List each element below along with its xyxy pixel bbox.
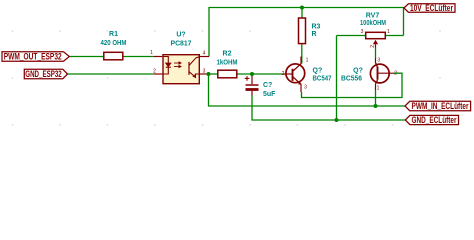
svg-text:GND_ESP32: GND_ESP32 <box>25 69 62 79</box>
phototransistor inside opto <box>189 57 200 78</box>
svg-text:1: 1 <box>306 58 309 64</box>
wire cap down to GND row <box>252 95 405 120</box>
pin 1 <box>154 56 162 58</box>
svg-text:5uF: 5uF <box>263 91 276 98</box>
wire R3 top <box>301 8 303 19</box>
svg-text:2: 2 <box>394 71 397 77</box>
opto-coupler U1 PC817 <box>150 31 209 83</box>
capacitor C1 5uF <box>245 75 276 98</box>
wiper arrow <box>373 40 378 44</box>
emitter with arrow <box>293 77 302 93</box>
collector <box>293 57 302 72</box>
svg-text:GND_ECLüfter: GND_ECLüfter <box>412 115 457 125</box>
resistor R3 <box>299 18 321 44</box>
pin 3 <box>200 73 209 75</box>
svg-text:1: 1 <box>377 86 380 92</box>
label GND_ECLüfter <box>405 115 458 125</box>
base pin <box>284 73 293 75</box>
LED inside opto <box>162 57 171 75</box>
junction R3 top node <box>300 6 304 10</box>
wire PWM_OUT row <box>69 56 154 58</box>
svg-text:R1: R1 <box>109 31 118 38</box>
svg-text:PC817: PC817 <box>171 40 192 47</box>
wire R3 to Q1 collector <box>301 44 303 63</box>
svg-text:Q?: Q? <box>313 68 323 75</box>
svg-text:2: 2 <box>282 71 285 77</box>
wire RV7 left leg to GND <box>336 36 338 121</box>
junction pin3 node <box>207 72 211 76</box>
svg-text:3: 3 <box>377 58 380 64</box>
transistor Q2 BC556 <box>341 58 397 92</box>
svg-text:BC547: BC547 <box>313 75 332 82</box>
pin 2 <box>154 73 162 75</box>
wire Q1 emitter loop to Q2 base <box>302 73 403 97</box>
svg-text:1: 1 <box>387 29 390 35</box>
wire RV7 right terminal <box>386 35 404 37</box>
svg-text:2: 2 <box>153 69 156 75</box>
svg-text:C?: C? <box>263 82 272 89</box>
svg-text:U?: U? <box>176 31 185 38</box>
junction cap top node <box>250 72 254 76</box>
svg-text:R: R <box>312 31 317 38</box>
svg-text:3: 3 <box>361 29 364 35</box>
svg-text:100kOHM: 100kOHM <box>360 20 386 27</box>
svg-text:R2: R2 <box>223 51 232 58</box>
collector bottom <box>376 80 378 90</box>
svg-text:3: 3 <box>304 85 307 91</box>
label 10V_ECLüfter <box>404 3 455 13</box>
svg-text:PWM_IN_ECLüfter: PWM_IN_ECLüfter <box>412 101 469 111</box>
wire Q2 collector down <box>375 90 377 106</box>
label PWM_IN_ECLüfter <box>405 101 471 111</box>
label GND_ESP32 <box>24 69 67 79</box>
svg-text:1kOHM: 1kOHM <box>217 60 238 67</box>
svg-text:BC556: BC556 <box>341 75 362 82</box>
wire pin3 to base row <box>209 73 285 75</box>
svg-text:1: 1 <box>150 50 153 56</box>
svg-text:10V_ECLüfter: 10V_ECLüfter <box>410 3 453 13</box>
svg-text:R3: R3 <box>312 24 321 31</box>
base pin <box>378 72 395 74</box>
wire top 10V net <box>209 8 404 57</box>
wire GND_ESP32 row <box>68 73 155 75</box>
wire RV7 wiper to Q2 <box>375 48 377 59</box>
pin 4 <box>200 56 209 58</box>
resistor R1 <box>101 31 127 60</box>
svg-text:3: 3 <box>203 69 206 75</box>
transistor Q1 BC547 <box>282 57 332 93</box>
resistor R2 <box>217 51 238 78</box>
svg-text:2: 2 <box>370 45 376 48</box>
wire RV7 left terminal <box>337 35 366 37</box>
junction GND wire node <box>335 118 339 122</box>
label PWM_OUT_ESP32 <box>2 52 69 62</box>
svg-text:Q?: Q? <box>353 68 363 75</box>
junction Q2 collector node <box>374 104 378 108</box>
potentiometer RV7 <box>360 12 390 47</box>
svg-text:PWM_OUT_ESP32: PWM_OUT_ESP32 <box>4 52 62 62</box>
emitter top with arrow <box>376 58 378 66</box>
svg-text:RV7: RV7 <box>366 12 380 19</box>
light arrows <box>174 62 181 68</box>
svg-text:4: 4 <box>203 51 206 57</box>
svg-text:420 OHM: 420 OHM <box>101 40 127 47</box>
grid dots (decorative) <box>12 30 442 126</box>
wire pin3 down to PWM_IN row <box>209 74 406 106</box>
